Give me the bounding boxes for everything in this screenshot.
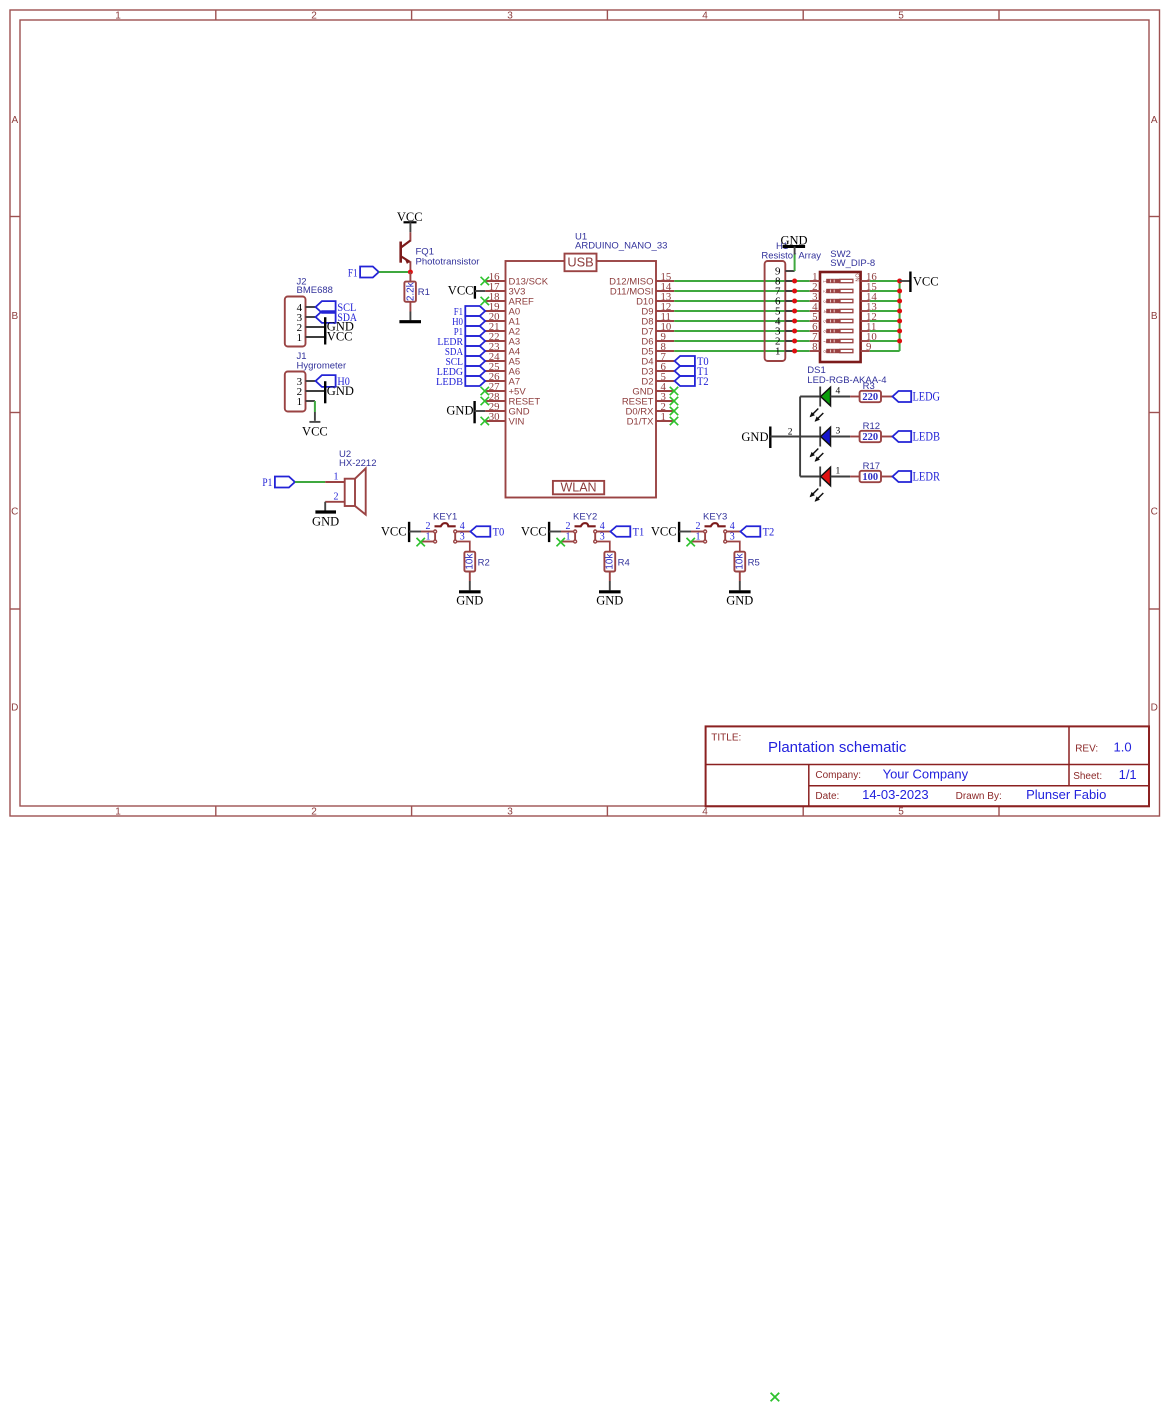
- wire KEY3 pin3 to R5: [727, 542, 740, 552]
- svg-text:2: 2: [334, 492, 339, 503]
- svg-text:VCC: VCC: [521, 524, 547, 538]
- svg-text:D: D: [1151, 703, 1158, 714]
- svg-text:GND: GND: [741, 430, 768, 444]
- transistor FQ1 Phototransistor: [401, 241, 480, 270]
- svg-text:GND: GND: [327, 384, 354, 398]
- global label T2 (U1 pin 5): [675, 374, 709, 388]
- svg-text:Plunser Fabio: Plunser Fabio: [1026, 787, 1106, 802]
- wire net D11/MOSI (U1 to SW2): [674, 290, 810, 292]
- wire R17 to label: [881, 476, 893, 478]
- svg-text:Sheet:: Sheet:: [1073, 771, 1102, 782]
- global label SDA (J2 pin3): [316, 310, 358, 324]
- svg-text:8: 8: [812, 341, 817, 353]
- switch KEY2: [566, 512, 605, 544]
- svg-text:GND: GND: [312, 515, 339, 529]
- IC U1 ARDUINO_NANO_33: [506, 232, 668, 498]
- svg-text:R4: R4: [618, 557, 630, 568]
- wire R5 to ground: [739, 572, 741, 582]
- wire net D5 (U1 to SW2): [674, 350, 810, 352]
- svg-text:Phototransistor: Phototransistor: [416, 257, 480, 268]
- svg-text:10k: 10k: [605, 553, 616, 570]
- svg-text:USB: USB: [567, 255, 593, 270]
- svg-text:A: A: [1151, 115, 1158, 126]
- svg-text:WLAN: WLAN: [560, 481, 596, 495]
- svg-text:D1/TX: D1/TX: [627, 416, 655, 427]
- svg-text:R1: R1: [418, 287, 430, 298]
- global label H0 (J1 pin3): [316, 374, 350, 388]
- KEY2 pin4 stub: [597, 531, 611, 533]
- global label T0 (KEY1): [470, 524, 504, 538]
- svg-text:Plantation schematic: Plantation schematic: [768, 739, 907, 756]
- global label LEDR: [893, 470, 941, 484]
- svg-text:B: B: [11, 311, 18, 322]
- LED R12 element pin 3: [810, 427, 851, 462]
- power VCC (FQ1 collector): [397, 210, 423, 232]
- wire bus to VCC: [900, 280, 911, 282]
- svg-text:1.0: 1.0: [1114, 740, 1132, 755]
- svg-text:VCC: VCC: [913, 274, 939, 288]
- global label F1 (phototransistor): [348, 266, 379, 280]
- wire VCC to KEY3 pin2: [679, 531, 691, 533]
- wire P1 to U2 pin1: [295, 481, 325, 483]
- svg-text:T1: T1: [633, 524, 645, 538]
- svg-text:VCC: VCC: [327, 330, 353, 344]
- global label LEDB (U1 pin 26): [436, 376, 485, 388]
- ground (R5): [726, 592, 753, 608]
- ground (R2): [456, 592, 483, 608]
- svg-text:KEY1: KEY1: [433, 512, 457, 523]
- svg-text:Hygrometer: Hygrometer: [297, 360, 347, 371]
- wire R1 to ground: [409, 302, 411, 312]
- wire net D10 (U1 to SW2): [674, 300, 810, 302]
- svg-text:VCC: VCC: [381, 524, 407, 538]
- wire J1 pin1 to VCC: [314, 401, 316, 421]
- svg-text:2: 2: [311, 806, 317, 817]
- wire VCC bus vertical: [899, 281, 901, 351]
- svg-text:R2: R2: [478, 557, 490, 568]
- svg-text:1: 1: [775, 346, 781, 358]
- svg-text:1: 1: [297, 396, 303, 408]
- svg-text:1: 1: [836, 467, 841, 477]
- svg-text:T2: T2: [763, 524, 775, 538]
- svg-text:LEDB: LEDB: [436, 376, 463, 388]
- wire VCC to FQ1 collector: [409, 232, 411, 241]
- svg-text:Company:: Company:: [815, 770, 861, 781]
- KEY1 pin1 stub + no-connect: [421, 541, 433, 543]
- power GND (J1 pin2): [325, 381, 354, 403]
- ground (U2): [312, 512, 339, 529]
- global label T0 (U1 pin 7): [675, 354, 709, 368]
- svg-text:F1: F1: [348, 266, 358, 280]
- connector J2 BME688: [285, 277, 333, 347]
- KEY1 pin4 stub: [457, 531, 471, 533]
- global label LEDR (U1 pin 22): [437, 336, 485, 348]
- power VCC (KEY1): [381, 522, 409, 542]
- global label SCL (U1 pin 24): [446, 356, 486, 368]
- resistor R2 10k: [464, 552, 489, 572]
- svg-text:ARDUINO_NANO_33: ARDUINO_NANO_33: [575, 241, 667, 252]
- wire net D12/MISO (U1 to SW2): [674, 280, 810, 282]
- wire KEY1 pin3 to R2: [457, 542, 470, 552]
- ground (below R1): [399, 320, 421, 323]
- resistor R12 220: [860, 421, 881, 443]
- ground (R4): [596, 592, 623, 608]
- svg-text:3: 3: [507, 806, 513, 817]
- global label LEDG: [893, 390, 941, 404]
- KEY3 pin4 stub: [727, 531, 741, 533]
- svg-text:4: 4: [702, 806, 708, 817]
- svg-text:220: 220: [862, 432, 878, 443]
- wire R3 to label: [881, 396, 893, 398]
- connector J1 Hygrometer: [285, 351, 346, 412]
- wire to resistor R3: [850, 396, 860, 398]
- wire junction to R1: [409, 272, 411, 282]
- node F1/emitter junction: [408, 270, 413, 275]
- switch KEY1: [426, 512, 465, 544]
- svg-text:T0: T0: [493, 524, 505, 538]
- svg-text:3: 3: [836, 427, 841, 437]
- svg-text:2.2k: 2.2k: [405, 281, 416, 301]
- global label H0 (U1 pin 20): [452, 316, 485, 328]
- H1 pin stubs: [785, 271, 794, 351]
- wire R4 to ground: [609, 572, 611, 582]
- svg-text:VCC: VCC: [651, 524, 677, 538]
- wire net D7 (U1 to SW2): [674, 330, 810, 332]
- svg-text:Drawn By:: Drawn By:: [956, 791, 1002, 802]
- svg-text:2: 2: [788, 427, 793, 437]
- svg-text:1: 1: [661, 411, 666, 423]
- svg-text:SW_DIP-8: SW_DIP-8: [830, 258, 875, 269]
- svg-text:ON: ON: [853, 273, 859, 281]
- junctions VCC bus: [897, 279, 902, 344]
- no-connect marks U1 left pins: [481, 277, 489, 425]
- switch SW2 SW_DIP-8: [820, 249, 875, 362]
- wire DS1 common anode bus: [800, 397, 820, 477]
- wire VCC to KEY1 pin2: [409, 531, 421, 533]
- global label P1 (speaker): [262, 475, 295, 489]
- KEY2 pin1 stub + no-connect: [561, 541, 573, 543]
- KEY3 pin1 stub + no-connect: [691, 541, 703, 543]
- global label P1 (U1 pin 21): [454, 326, 486, 338]
- global label T1 (U1 pin 6): [675, 364, 709, 378]
- svg-text:VCC: VCC: [448, 284, 474, 298]
- no-connect marks U1 right pins: [670, 387, 678, 425]
- svg-text:C: C: [11, 507, 18, 518]
- resistor R5 10k: [734, 552, 759, 572]
- svg-text:Your Company: Your Company: [883, 766, 969, 781]
- svg-text:1: 1: [115, 10, 121, 21]
- speaker U2 HX-2212: [325, 449, 376, 515]
- power GND (J2 pin2): [325, 317, 354, 339]
- svg-text:A: A: [11, 115, 18, 126]
- svg-text:KEY3: KEY3: [703, 512, 727, 523]
- power GND (U1 pin29): [446, 401, 485, 423]
- svg-text:30: 30: [489, 411, 500, 423]
- resistor R17 100: [860, 461, 881, 483]
- wire R12 to label: [881, 436, 893, 438]
- power VCC (J2 pin1): [325, 330, 352, 345]
- svg-text:1: 1: [297, 332, 303, 344]
- power GND (H1 pin9): [780, 233, 807, 254]
- SW2 right pin stubs 16-9: [861, 271, 878, 353]
- svg-text:D: D: [11, 703, 18, 714]
- svg-text:KEY2: KEY2: [573, 512, 597, 523]
- wire R2 to ground: [469, 572, 471, 582]
- power VCC (SW2 bus): [910, 272, 938, 293]
- global label SDA (U1 pin 23): [445, 346, 485, 358]
- svg-text:P1: P1: [262, 475, 272, 489]
- svg-text:100: 100: [862, 472, 878, 483]
- svg-text:T2: T2: [697, 374, 709, 388]
- power GND (DS1 pin2): [741, 427, 770, 449]
- svg-text:1: 1: [334, 472, 339, 483]
- switch KEY3: [696, 512, 735, 544]
- svg-text:LEDG: LEDG: [913, 390, 941, 404]
- svg-text:GND: GND: [456, 594, 483, 608]
- svg-text:LEDB: LEDB: [913, 430, 941, 444]
- svg-text:4: 4: [836, 387, 841, 397]
- global label LEDB: [893, 430, 941, 444]
- svg-text:GND: GND: [596, 594, 623, 608]
- svg-text:4: 4: [702, 10, 708, 21]
- svg-text:GND: GND: [446, 404, 473, 418]
- wires SW2 right pins to VCC bus: [870, 281, 900, 351]
- wire net D6 (U1 to SW2): [674, 340, 810, 342]
- global label T2 (KEY3): [740, 524, 774, 538]
- svg-text:VCC: VCC: [302, 425, 328, 439]
- power VCC (KEY3): [651, 522, 679, 542]
- wire net D9 (U1 to SW2): [674, 310, 810, 312]
- svg-text:GND: GND: [726, 594, 753, 608]
- svg-text:TITLE:: TITLE:: [711, 733, 741, 744]
- svg-text:3: 3: [507, 10, 513, 21]
- resistor R3 220: [860, 381, 881, 403]
- svg-text:B: B: [1151, 311, 1158, 322]
- svg-text:14-03-2023: 14-03-2023: [862, 787, 929, 802]
- svg-text:220: 220: [862, 392, 878, 403]
- svg-text:5: 5: [898, 806, 904, 817]
- svg-text:LEDR: LEDR: [913, 470, 941, 484]
- junctions H1 pins 8-1: [792, 279, 797, 354]
- wire to resistor R17: [850, 476, 860, 478]
- LED R3 element pin 4: [810, 387, 851, 422]
- title block: [706, 726, 1149, 806]
- SW2 left pin stubs 1-8: [810, 271, 820, 353]
- svg-text:VIN: VIN: [509, 416, 525, 427]
- wire net D8 (U1 to SW2): [674, 320, 810, 322]
- J2 pin stubs: [306, 306, 316, 308]
- stray no-connect mark (bottom): [771, 1393, 780, 1402]
- svg-text:5: 5: [898, 10, 904, 21]
- U1 left pins 16-30: [485, 271, 549, 427]
- wire to resistor R12: [850, 436, 860, 438]
- svg-text:1: 1: [115, 806, 121, 817]
- wire VCC to KEY2 pin2: [549, 531, 561, 533]
- svg-text:HX-2212: HX-2212: [339, 458, 377, 469]
- resistor R1 2.2k: [404, 281, 430, 302]
- svg-text:BME688: BME688: [297, 285, 333, 296]
- wire F1 to junction: [379, 271, 408, 273]
- global label F1 (U1 pin 19): [454, 306, 485, 318]
- LED R17 element pin 1: [810, 467, 851, 502]
- wire GND to DS1: [770, 436, 800, 438]
- resistor array H1: [761, 241, 821, 361]
- svg-text:REV:: REV:: [1075, 744, 1098, 755]
- svg-text:10k: 10k: [465, 553, 476, 570]
- power VCC (KEY2): [521, 522, 549, 542]
- svg-text:10k: 10k: [735, 553, 746, 570]
- wire KEY2 pin3 to R4: [597, 542, 610, 552]
- LED DS1 LED-RGB-AKAA-4: [807, 365, 886, 386]
- svg-text:R5: R5: [748, 557, 760, 568]
- resistor R4 10k: [604, 552, 629, 572]
- wire U2 pin2 to ground: [324, 502, 326, 511]
- global label SCL (J2 pin4): [316, 300, 357, 314]
- U1 right pins 15-1: [609, 271, 674, 427]
- svg-text:2: 2: [311, 10, 317, 21]
- power VCC (U1 pin17 3V3): [448, 284, 485, 299]
- power VCC (below J1): [302, 422, 328, 439]
- svg-text:Date:: Date:: [815, 791, 839, 802]
- svg-text:C: C: [1151, 507, 1158, 518]
- sheet frame: [10, 10, 1160, 817]
- J1 pin stubs: [306, 380, 316, 382]
- global label T1 (KEY2): [610, 524, 644, 538]
- svg-text:1/1: 1/1: [1119, 767, 1137, 782]
- wire GND to H1 pin9: [794, 255, 796, 272]
- global label LEDG (U1 pin 25): [437, 366, 486, 378]
